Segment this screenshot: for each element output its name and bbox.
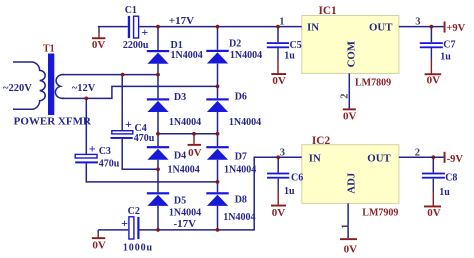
svg-text:2: 2 bbox=[339, 93, 350, 98]
svg-text:LM7809: LM7809 bbox=[355, 78, 391, 89]
svg-text:3: 3 bbox=[280, 147, 285, 158]
svg-text:0V: 0V bbox=[343, 111, 357, 123]
svg-text:IC1: IC1 bbox=[319, 5, 338, 17]
svg-text:ADJ: ADJ bbox=[346, 172, 358, 194]
svg-text:0V: 0V bbox=[427, 207, 441, 219]
svg-text:1N4004: 1N4004 bbox=[169, 208, 201, 219]
svg-text:OUT: OUT bbox=[367, 153, 391, 165]
svg-text:0V: 0V bbox=[92, 240, 106, 252]
svg-text:D5: D5 bbox=[174, 196, 186, 207]
svg-text:IC2: IC2 bbox=[312, 135, 331, 147]
svg-text:1N4004: 1N4004 bbox=[171, 50, 203, 61]
svg-text:D3: D3 bbox=[174, 92, 186, 103]
svg-text:C3: C3 bbox=[99, 146, 111, 157]
svg-text:+: + bbox=[125, 117, 132, 131]
svg-text:OUT: OUT bbox=[369, 21, 393, 33]
svg-text:1N4004: 1N4004 bbox=[229, 117, 261, 128]
svg-text:~220V: ~220V bbox=[3, 83, 32, 94]
svg-text:COM: COM bbox=[345, 41, 357, 67]
svg-text:+: + bbox=[121, 216, 128, 230]
svg-text:+: + bbox=[89, 142, 96, 156]
svg-text:1u: 1u bbox=[284, 186, 295, 197]
svg-text:IN: IN bbox=[309, 153, 321, 165]
svg-text:D7: D7 bbox=[235, 152, 247, 163]
svg-text:IN: IN bbox=[307, 21, 319, 33]
svg-text:1u: 1u bbox=[440, 52, 451, 63]
svg-text:-9V: -9V bbox=[447, 154, 464, 165]
svg-text:+17V: +17V bbox=[169, 15, 194, 27]
svg-text:D2: D2 bbox=[229, 39, 241, 50]
svg-text:1u: 1u bbox=[284, 50, 295, 61]
svg-text:470u: 470u bbox=[99, 159, 120, 170]
svg-text:0V: 0V bbox=[344, 244, 358, 256]
svg-text:3: 3 bbox=[415, 16, 420, 27]
svg-text:POWER XFMR: POWER XFMR bbox=[14, 116, 92, 128]
svg-text:1N4004: 1N4004 bbox=[223, 212, 255, 223]
svg-text:D4: D4 bbox=[174, 151, 186, 162]
svg-text:1N4004: 1N4004 bbox=[224, 165, 256, 176]
svg-text:1000u: 1000u bbox=[123, 243, 153, 254]
svg-text:1N4004: 1N4004 bbox=[230, 50, 262, 61]
svg-text:2: 2 bbox=[415, 147, 420, 158]
svg-text:T1: T1 bbox=[43, 44, 55, 55]
svg-text:0V: 0V bbox=[188, 147, 202, 159]
svg-text:0V: 0V bbox=[427, 75, 441, 87]
svg-text:470u: 470u bbox=[134, 133, 155, 144]
svg-text:C7: C7 bbox=[443, 40, 455, 51]
svg-text:C1: C1 bbox=[125, 5, 137, 16]
svg-text:-17V: -17V bbox=[174, 218, 197, 230]
svg-text:0V: 0V bbox=[272, 207, 286, 219]
svg-text:C2: C2 bbox=[128, 206, 140, 217]
svg-text:0V: 0V bbox=[272, 75, 286, 87]
svg-text:+: + bbox=[141, 25, 148, 39]
svg-text:~12V: ~12V bbox=[72, 83, 96, 94]
svg-text:1: 1 bbox=[340, 224, 351, 229]
svg-text:C8: C8 bbox=[445, 173, 457, 184]
svg-text:0V: 0V bbox=[92, 39, 106, 51]
svg-text:D6: D6 bbox=[235, 91, 247, 102]
svg-text:C6: C6 bbox=[291, 173, 303, 184]
svg-text:1N4004: 1N4004 bbox=[169, 117, 201, 128]
svg-text:2200u: 2200u bbox=[123, 40, 149, 51]
svg-text:LM7909: LM7909 bbox=[362, 208, 398, 219]
svg-text:1u: 1u bbox=[439, 187, 450, 198]
svg-text:1N4004: 1N4004 bbox=[168, 165, 200, 176]
svg-text:+9V: +9V bbox=[446, 23, 465, 34]
svg-text:D8: D8 bbox=[235, 194, 247, 205]
svg-text:1: 1 bbox=[279, 17, 284, 28]
